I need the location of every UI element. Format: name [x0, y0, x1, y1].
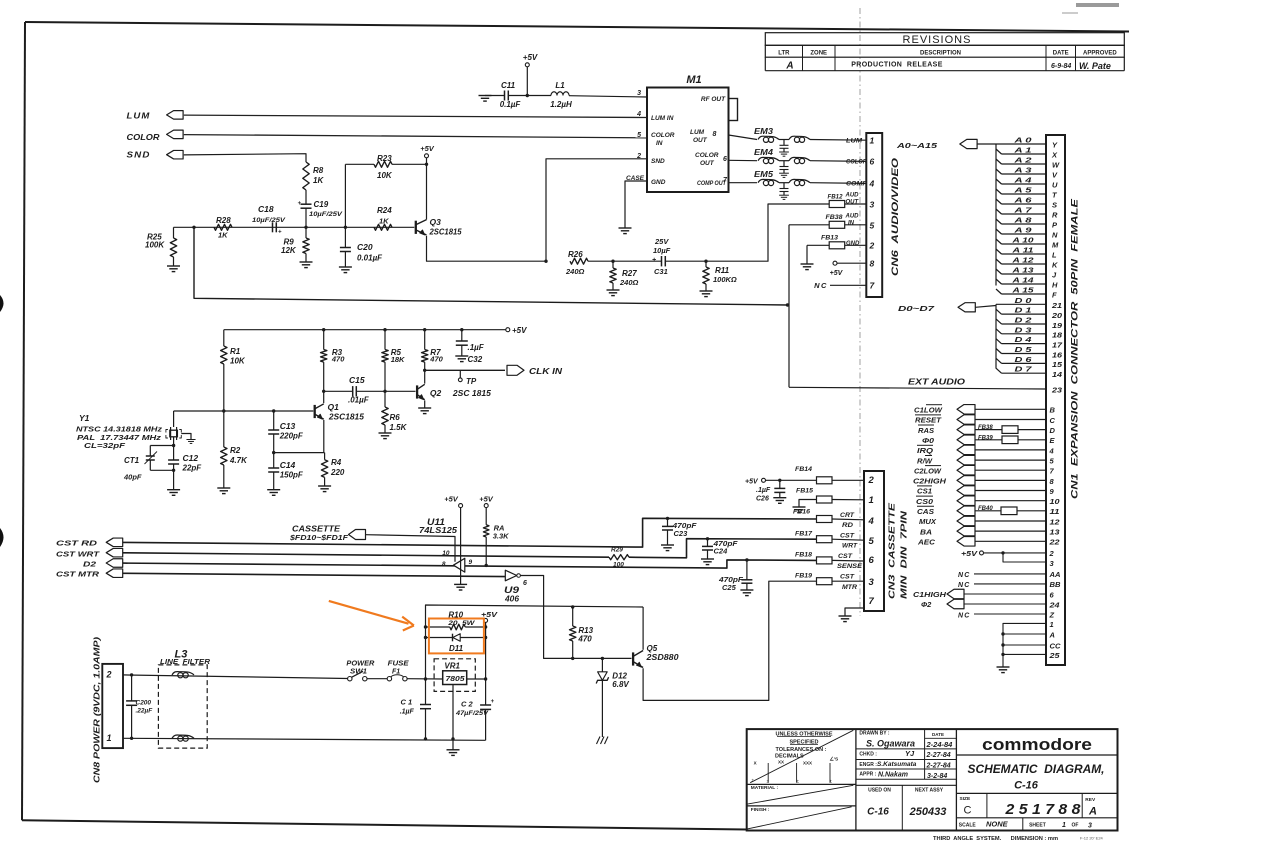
- svg-text:FB12: FB12: [828, 194, 843, 201]
- resistor R2 4.7K: [221, 411, 249, 488]
- svg-text:FB17: FB17: [795, 531, 812, 538]
- wire U9 output to Q5 base: [520, 576, 631, 659]
- svg-text:A 11: A 11: [1011, 246, 1033, 255]
- vertical fold dash-dot line: [859, 8, 861, 616]
- capacitor C26 .1uF: [756, 479, 785, 503]
- svg-text:OUT: OUT: [846, 200, 860, 206]
- svg-text:CST: CST: [838, 553, 853, 560]
- svg-text:A 6: A 6: [1013, 196, 1033, 205]
- svg-text:1: 1: [1050, 620, 1054, 629]
- svg-text:+5V: +5V: [961, 551, 979, 558]
- svg-text:CST RD: CST RD: [56, 539, 98, 548]
- svg-text:FB19: FB19: [795, 573, 812, 580]
- svg-text:LINE FILTER: LINE FILTER: [160, 659, 210, 666]
- svg-text:2-27-84: 2-27-84: [926, 762, 951, 769]
- svg-text:250433: 250433: [909, 806, 947, 818]
- svg-text:6: 6: [523, 580, 527, 587]
- ferrite bead FB38 audio in: [789, 214, 866, 229]
- svg-text:COMP: COMP: [846, 181, 868, 188]
- svg-text:C13: C13: [280, 421, 296, 431]
- +5V tap U11: [444, 495, 462, 585]
- svg-text:GND: GND: [651, 179, 666, 186]
- svg-text:8: 8: [713, 131, 717, 138]
- resistor R10 20 5W: [426, 611, 488, 630]
- signal flag BA to CN1 pin 13: [920, 526, 1060, 536]
- svg-text:10µF/25V: 10µF/25V: [252, 217, 286, 224]
- svg-text:CT1: CT1: [124, 456, 140, 465]
- svg-text:TP: TP: [466, 377, 477, 386]
- ground below R11: [700, 290, 713, 292]
- ground below R27: [607, 289, 620, 291]
- svg-text:FB38: FB38: [978, 425, 993, 431]
- svg-text:MTR: MTR: [842, 584, 857, 591]
- svg-text:DESCRIPTION: DESCRIPTION: [920, 50, 961, 56]
- svg-text:1K: 1K: [218, 231, 228, 240]
- scan punch hole marks left edge: [0, 295, 4, 312]
- svg-text:9: 9: [469, 559, 473, 566]
- svg-text:100KΩ: 100KΩ: [713, 275, 737, 284]
- svg-text:FB38: FB38: [826, 214, 843, 221]
- svg-text:CST MTR: CST MTR: [56, 570, 100, 579]
- resistor R27 240ohm: [610, 261, 639, 290]
- wire M1 COLOR OUT: [729, 159, 758, 161]
- resistor R5 18K: [382, 328, 405, 393]
- capacitor C20 0.01uF: [340, 227, 383, 267]
- connector CN1 expansion: [1046, 135, 1080, 665]
- svg-text:NC: NC: [814, 281, 828, 290]
- svg-text:FUSE: FUSE: [388, 661, 409, 668]
- svg-text:.1µF: .1µF: [468, 343, 485, 352]
- wire EXT AUDIO: [789, 378, 1063, 395]
- svg-text:R6: R6: [390, 413, 401, 422]
- svg-text:12K: 12K: [281, 246, 297, 255]
- svg-text:COLOR: COLOR: [127, 132, 161, 142]
- ground below C32: [455, 355, 468, 357]
- CST MTR input flag: [56, 569, 123, 579]
- svg-text:Φ2: Φ2: [921, 600, 932, 609]
- svg-text:C20: C20: [357, 242, 373, 252]
- D2 input flag: [83, 559, 123, 569]
- PHI2 flag: [921, 599, 1060, 609]
- wire lower return rail to FB38 node: [194, 227, 788, 305]
- svg-text:18K: 18K: [391, 355, 405, 364]
- svg-text:1.5K: 1.5K: [390, 423, 408, 432]
- svg-text:C19: C19: [314, 200, 329, 209]
- svg-text:10: 10: [1050, 497, 1061, 506]
- svg-text:THIRD ANGLE SYSTEM. DIM: THIRD ANGLE SYSTEM. DIMENSION : mm: [933, 836, 1059, 842]
- svg-text:R27: R27: [622, 269, 637, 278]
- svg-text:AA: AA: [1048, 570, 1060, 579]
- svg-text:LUM: LUM: [127, 111, 151, 121]
- wire CST WRT line: [123, 553, 609, 557]
- capacitor C18 10uF/25V: [252, 204, 286, 236]
- svg-text:25V: 25V: [654, 237, 669, 246]
- svg-text:SND: SND: [651, 158, 665, 165]
- svg-text:2SD880: 2SD880: [645, 653, 679, 662]
- svg-text:REVISIONS: REVISIONS: [903, 34, 972, 46]
- svg-text:OF: OF: [1072, 823, 1079, 829]
- line filter L3: [158, 649, 210, 749]
- svg-text:A 3: A 3: [1013, 166, 1033, 175]
- resistor R29 100: [609, 547, 629, 569]
- svg-text:CS0: CS0: [916, 497, 934, 506]
- crystal case ground: [181, 434, 195, 444]
- svg-text:C15: C15: [349, 375, 365, 385]
- svg-text:47µF/25V: 47µF/25V: [455, 710, 489, 717]
- svg-text:A 15: A 15: [1011, 286, 1034, 295]
- svg-text:R2: R2: [230, 446, 241, 455]
- capacitor C2 47uF/25V: [455, 679, 495, 740]
- svg-text:CN6 AUDIO/VIDEO: CN6 AUDIO/VIDEO: [890, 158, 900, 276]
- svg-text:3: 3: [869, 577, 875, 588]
- svg-text:+5V: +5V: [479, 495, 494, 504]
- ground below C23: [661, 544, 674, 546]
- filter EM4: [754, 148, 867, 177]
- capacitor C200 .22uF: [126, 673, 153, 740]
- svg-text:3: 3: [1088, 823, 1092, 830]
- svg-text:OUT: OUT: [693, 137, 708, 144]
- svg-text:R24: R24: [377, 206, 392, 215]
- signal flag Φ0 to CN1 pin E: [922, 435, 1056, 445]
- label NTSC/PAL frequencies: [76, 427, 163, 451]
- svg-text:NC: NC: [958, 572, 971, 579]
- svg-text:CST: CST: [840, 574, 855, 581]
- test point TP: [458, 370, 476, 386]
- signal flag CS1 to CN1 pin 9: [917, 486, 1055, 496]
- connector CN8 power: [93, 637, 124, 783]
- svg-text:4: 4: [868, 516, 875, 527]
- CLK IN output flag: [507, 365, 562, 376]
- svg-text:24: 24: [1048, 600, 1060, 609]
- title block: [747, 729, 1118, 830]
- svg-text:APPROVED: APPROVED: [1083, 50, 1117, 56]
- svg-text:COLOR: COLOR: [651, 132, 675, 139]
- svg-text:2: 2: [106, 670, 112, 680]
- resistor R25 100K: [145, 227, 177, 266]
- wire D bus fanout: [996, 304, 1046, 373]
- wire Q1 emitter: [323, 420, 325, 453]
- wire to FB12 audio out: [706, 204, 829, 261]
- regulator VR1 7805: [434, 659, 487, 692]
- junction C20/R23 on rail: [344, 226, 347, 229]
- RF modulator M1: [626, 74, 738, 192]
- signal flag RESET to CN1 pin C: [915, 415, 1056, 425]
- signal flag R/W to CN1 pin 5: [917, 455, 1055, 465]
- wire Q2 collector to CLK: [424, 370, 426, 383]
- svg-text:1: 1: [870, 136, 875, 146]
- svg-text:W: W: [1052, 160, 1060, 169]
- svg-text:D2: D2: [83, 560, 97, 569]
- svg-text:R: R: [1052, 210, 1058, 219]
- svg-text:13: 13: [1050, 528, 1061, 537]
- svg-text:Q2: Q2: [430, 388, 442, 398]
- svg-text:ZONE: ZONE: [810, 50, 827, 56]
- svg-text:Φ0: Φ0: [922, 436, 935, 445]
- resistor R28 1K: [214, 216, 232, 240]
- svg-text:COLOR: COLOR: [846, 159, 867, 166]
- svg-text:Q1: Q1: [328, 402, 340, 412]
- svg-text:A 9: A 9: [1013, 226, 1033, 235]
- svg-text:NEXT ASSY: NEXT ASSY: [915, 788, 944, 794]
- svg-text:7805: 7805: [446, 674, 466, 683]
- svg-text:APPR :: APPR :: [859, 772, 876, 778]
- svg-text:SIZE: SIZE: [960, 796, 971, 802]
- svg-text:220: 220: [330, 468, 345, 477]
- svg-text:C1HIGH: C1HIGH: [913, 590, 947, 599]
- wire CST WRT to FB17: [629, 539, 817, 558]
- svg-text:A 4: A 4: [1013, 176, 1033, 185]
- svg-text:2-27-84: 2-27-84: [926, 752, 951, 759]
- wire main bias rail: [174, 226, 415, 228]
- ground below R6: [379, 432, 392, 434]
- svg-text:D 1: D 1: [1015, 306, 1032, 315]
- svg-text:+: +: [652, 257, 656, 264]
- zener diode D12 6.8V: [596, 657, 629, 737]
- wire A bus fanout: [996, 144, 1046, 294]
- svg-text:DRAWN BY :: DRAWN BY :: [859, 730, 890, 736]
- svg-text:R28: R28: [216, 216, 231, 225]
- svg-text:3.3K: 3.3K: [493, 532, 509, 541]
- node junction to lower rail: [192, 226, 195, 229]
- svg-text:A 2: A 2: [1013, 156, 1033, 165]
- signal flag AEC to CN1 pin 22: [917, 537, 1061, 547]
- svg-text:C14: C14: [280, 460, 296, 470]
- svg-text:C 2: C 2: [461, 700, 474, 709]
- wire Q1 base rail: [174, 409, 314, 412]
- svg-text:LUM IN: LUM IN: [651, 115, 674, 122]
- M1 case ground wire: [625, 181, 647, 228]
- A0-A15 bus flag: [896, 139, 996, 150]
- svg-text:F-12 20' E24: F-12 20' E24: [1080, 836, 1104, 841]
- CST WRT input flag: [56, 548, 123, 558]
- svg-text:+: +: [298, 201, 302, 207]
- ferrite bead FB14: [795, 466, 864, 484]
- svg-text:10: 10: [442, 550, 450, 557]
- signal flag CS0 to CN1 pin 10: [916, 496, 1060, 506]
- svg-text:VR1: VR1: [444, 662, 460, 671]
- svg-text:C2LOW: C2LOW: [914, 466, 942, 475]
- svg-text:IN: IN: [848, 221, 855, 227]
- svg-text:RD: RD: [842, 522, 853, 529]
- wire LUM to M1 pin4: [184, 115, 647, 117]
- wire +5V oscillator rail: [224, 326, 527, 335]
- transistor Q1 2SC1815: [315, 402, 365, 422]
- ground D12 chassis marks: [597, 737, 609, 745]
- svg-text:2-24-84: 2-24-84: [926, 740, 954, 749]
- svg-text:C-16: C-16: [1014, 780, 1039, 792]
- svg-text:S.Katsumata: S.Katsumata: [877, 761, 917, 768]
- svg-text:10K: 10K: [377, 171, 393, 180]
- svg-text:C11: C11: [501, 81, 516, 90]
- resistor R26 240ohm: [565, 250, 588, 276]
- +5V tap CN3 pin2: [745, 478, 817, 485]
- svg-text:S: S: [1052, 200, 1057, 209]
- transistor Q5 2SD880: [633, 644, 679, 668]
- svg-text:5: 5: [870, 221, 875, 231]
- svg-text:10µF/25V: 10µF/25V: [309, 211, 343, 218]
- svg-text:WRT: WRT: [842, 543, 858, 550]
- signal flag CAS to CN1 pin 11: [917, 506, 1060, 516]
- svg-text:74LS125: 74LS125: [419, 526, 458, 535]
- CN3 pin7 ground: [839, 608, 865, 622]
- svg-text:RAS: RAS: [918, 426, 934, 435]
- svg-text:A: A: [1088, 806, 1097, 818]
- wire CLK IN line: [423, 369, 505, 372]
- svg-text:A 0: A 0: [1013, 136, 1033, 145]
- labels A0-A15: [1011, 136, 1060, 300]
- svg-text:CC: CC: [1050, 641, 1062, 650]
- svg-text:SND: SND: [127, 150, 151, 160]
- svg-text:C25: C25: [722, 583, 737, 592]
- svg-text:C12: C12: [183, 453, 199, 463]
- resistor R8 1K: [303, 162, 325, 204]
- capacitor C11 0.1uF: [485, 81, 551, 109]
- svg-text:+: +: [278, 230, 282, 236]
- svg-text:POWER: POWER: [346, 661, 374, 668]
- wire L1 to M1 pin3: [569, 96, 647, 97]
- svg-text:FB40: FB40: [978, 506, 993, 512]
- svg-text:F: F: [1052, 290, 1057, 299]
- svg-text:MUX: MUX: [919, 517, 937, 526]
- svg-text:6: 6: [869, 555, 875, 566]
- capacitor C31 10uF 25V: [588, 237, 706, 276]
- svg-text:100K: 100K: [145, 241, 165, 250]
- svg-text:10K: 10K: [230, 357, 246, 366]
- ground below R2: [217, 487, 230, 489]
- diode D11: [426, 634, 488, 653]
- ground M1 case: [619, 227, 632, 229]
- svg-text:R26: R26: [568, 250, 583, 259]
- wire cassette decode to U11 pin10: [366, 535, 456, 562]
- svg-text:1.2µH: 1.2µH: [550, 100, 572, 109]
- wire FB38 down to ext audio: [786, 225, 789, 387]
- svg-text:+5V: +5V: [444, 495, 459, 504]
- resistor R9 12K: [281, 227, 309, 262]
- svg-text:C31: C31: [654, 267, 668, 276]
- svg-text:XX: XX: [778, 760, 784, 765]
- svg-text:$FD10~$FD1F: $FD10~$FD1F: [289, 533, 349, 542]
- svg-text:C 1: C 1: [401, 698, 413, 707]
- wire D2 line: [123, 560, 817, 568]
- ferrite bead FB39 on Phi0: [978, 435, 1018, 443]
- svg-text:CN8 POWER (9VDC, 1.0AMP): CN8 POWER (9VDC, 1.0AMP): [93, 637, 102, 783]
- ferrite bead FB15: [796, 488, 864, 508]
- svg-text:L: L: [1052, 250, 1057, 259]
- svg-text:C1LOW: C1LOW: [914, 406, 943, 415]
- ground below C12: [167, 489, 180, 491]
- ground below C24: [701, 558, 714, 560]
- ground below R4: [318, 485, 331, 487]
- svg-text:X: X: [754, 761, 757, 766]
- svg-text:C200: C200: [136, 700, 152, 707]
- svg-text:A 1: A 1: [1013, 146, 1031, 155]
- svg-text:D 4: D 4: [1015, 335, 1033, 344]
- svg-text:EXT AUDIO: EXT AUDIO: [908, 378, 966, 387]
- svg-text:8: 8: [870, 259, 875, 269]
- svg-text:4: 4: [869, 179, 875, 189]
- NC line Z: [958, 610, 1055, 619]
- svg-text:XXX: XXX: [803, 761, 812, 766]
- svg-text:A 8: A 8: [1013, 216, 1033, 225]
- svg-text:REV: REV: [1085, 797, 1096, 803]
- NC label CN6 pin7: [814, 281, 866, 290]
- C1HIGH flag: [913, 589, 1055, 599]
- resistor R23 10K: [345, 154, 426, 227]
- inductor L1 1.2uH: [550, 81, 572, 109]
- svg-text:DATE: DATE: [1053, 50, 1069, 56]
- +5V supply tap top: [523, 53, 538, 97]
- svg-text:M1: M1: [686, 74, 701, 86]
- svg-text:LUM: LUM: [846, 138, 863, 145]
- svg-text:MIN DIN 7PIN: MIN DIN 7PIN: [899, 510, 909, 599]
- svg-text:R4: R4: [331, 458, 342, 467]
- resistor R3 470: [321, 328, 346, 391]
- svg-text:22: 22: [1048, 538, 1060, 547]
- svg-text:7: 7: [869, 596, 875, 607]
- svg-text:SCALE: SCALE: [959, 823, 977, 829]
- COLOR input flag: [127, 130, 184, 142]
- +5V tap CN6 pin8: [830, 261, 867, 277]
- svg-text:U9: U9: [504, 585, 519, 595]
- svg-text:D 6: D 6: [1015, 355, 1033, 364]
- scan artifact grey bar top right: [1076, 3, 1119, 7]
- svg-text:C-16: C-16: [867, 807, 889, 818]
- svg-text:23: 23: [1051, 386, 1063, 395]
- svg-text:40pF: 40pF: [123, 473, 142, 482]
- svg-text:H: H: [1052, 280, 1058, 289]
- svg-text:CN1 EXPANSION CONNECTOR 50P: CN1 EXPANSION CONNECTOR 50PIN FEMALE: [1070, 198, 1080, 499]
- svg-text:3: 3: [637, 90, 641, 97]
- svg-text:AEC: AEC: [917, 538, 936, 547]
- svg-text:+: +: [491, 699, 495, 705]
- svg-text:+5V: +5V: [745, 479, 759, 486]
- svg-text:220pF: 220pF: [279, 432, 304, 441]
- svg-text:20: 20: [1051, 311, 1063, 320]
- capacitor C25 470pF: [718, 558, 753, 592]
- revisions table: [765, 33, 1124, 72]
- junction R11: [704, 260, 707, 263]
- ferrite bead FB17: [795, 531, 864, 550]
- ferrite bead FB18: [795, 552, 864, 571]
- svg-text:Z: Z: [1049, 610, 1055, 619]
- svg-text:D 0: D 0: [1015, 296, 1033, 305]
- svg-text:1K: 1K: [379, 217, 389, 226]
- svg-text:Q3: Q3: [430, 217, 442, 227]
- svg-text:CHKD :: CHKD :: [859, 751, 877, 757]
- svg-text:PRODUCTION RELEASE: PRODUCTION RELEASE: [851, 62, 943, 69]
- svg-text:USED ON: USED ON: [868, 788, 891, 794]
- junction R27: [611, 260, 614, 263]
- svg-text:LTR: LTR: [778, 50, 790, 56]
- ferrite bead FB40 on CAS: [978, 506, 1017, 515]
- wire M1 LUM OUT: [729, 135, 758, 140]
- svg-text:FB18: FB18: [795, 552, 812, 559]
- LUM input flag: [127, 111, 184, 121]
- svg-text:C24: C24: [714, 547, 729, 556]
- svg-text:GND: GND: [846, 241, 860, 247]
- svg-text:D: D: [1050, 426, 1056, 435]
- capacitor C13 220pF: [268, 411, 304, 453]
- svg-text:4: 4: [1049, 446, 1055, 455]
- svg-text:SENSE: SENSE: [837, 563, 863, 570]
- svg-text:EM3: EM3: [754, 127, 774, 136]
- svg-text:N.Nakam: N.Nakam: [878, 772, 908, 779]
- wire CN8 pin2 line: [123, 675, 348, 679]
- svg-text:FB15: FB15: [796, 488, 813, 495]
- svg-text:CN3 CASSETTE: CN3 CASSETTE: [887, 503, 897, 599]
- svg-text:18: 18: [1052, 331, 1063, 340]
- svg-text:NTSC 14.31818 MHz: NTSC 14.31818 MHz: [76, 427, 163, 434]
